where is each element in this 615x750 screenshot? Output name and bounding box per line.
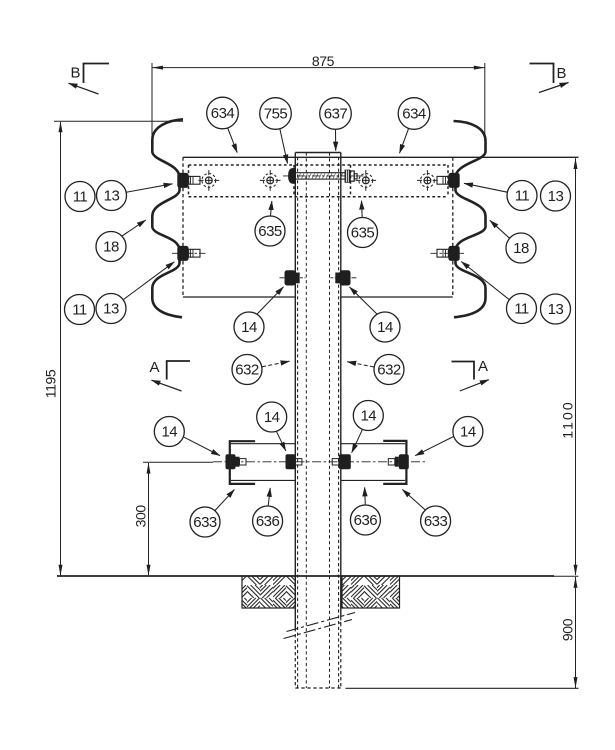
bolt hole target right-center bbox=[356, 170, 377, 191]
balloon 14 above flange bolt right bbox=[350, 287, 401, 342]
balloon 632 left (dashed leader) bbox=[232, 355, 290, 385]
lower bracket 633 left (channel) bbox=[230, 441, 295, 484]
bracket bolt 14 outer right bbox=[388, 454, 409, 469]
balloon 13 lower-right bbox=[541, 294, 571, 324]
svg-text:636: 636 bbox=[256, 513, 280, 530]
svg-text:633: 633 bbox=[424, 513, 448, 530]
balloon 633 right bbox=[402, 489, 450, 536]
dimension 1195 left bbox=[43, 121, 184, 575]
svg-text:11: 11 bbox=[514, 301, 529, 318]
svg-text:900: 900 bbox=[560, 618, 576, 641]
rail bolt 11/13 lower left bbox=[172, 246, 206, 261]
svg-text:18: 18 bbox=[103, 239, 119, 256]
balloon 634 top-right bbox=[398, 98, 430, 154]
balloon 14 above flange bolt left bbox=[234, 287, 284, 342]
post flange bolt 14 left (at plate bottom) bbox=[280, 270, 306, 285]
post 632 right wall bbox=[340, 153, 342, 618]
section marker B right bbox=[530, 64, 569, 93]
svg-text:13: 13 bbox=[103, 301, 119, 318]
balloon 13 lower-left bbox=[96, 262, 174, 324]
svg-text:B: B bbox=[71, 65, 81, 82]
svg-text:11: 11 bbox=[72, 302, 87, 319]
rail bolt 11/13 upper left (head + shank) bbox=[177, 173, 200, 188]
bolt hole target at plate right bbox=[417, 170, 438, 191]
balloon 14 bracket outer-left bbox=[154, 417, 220, 456]
svg-text:300: 300 bbox=[132, 505, 148, 528]
post 632 hidden lip lines (dashed, near walls) bbox=[297, 157, 299, 688]
dimension 1100 right bbox=[560, 158, 578, 576]
svg-text:18: 18 bbox=[513, 240, 529, 257]
svg-text:1100: 1100 bbox=[560, 400, 576, 439]
balloon 635 left bbox=[255, 201, 285, 246]
svg-text:14: 14 bbox=[264, 409, 280, 426]
dimension 900 right bbox=[552, 576, 579, 688]
bracket bolt 14 inner left bbox=[286, 454, 302, 469]
post 632 hidden outer walls underground (dashed) bbox=[294, 628, 296, 688]
balloon 637 bbox=[320, 98, 352, 151]
blockout plate 634 right edge (dashed) bbox=[452, 157, 454, 297]
balloon 11 lower-left bbox=[65, 295, 95, 325]
post flange bolt 14 right (at plate bottom) bbox=[330, 270, 356, 285]
blockout plate 634 top edge (extends as extension line to right dim) bbox=[183, 156, 579, 158]
rail bolt 11/13 upper right bbox=[437, 173, 460, 188]
bracket bolt 14 outer left bbox=[226, 454, 247, 469]
post break lines bbox=[287, 613, 356, 632]
svg-text:14: 14 bbox=[377, 319, 393, 336]
through bolt 755 nut and washer bbox=[345, 170, 358, 183]
svg-text:14: 14 bbox=[241, 319, 257, 336]
section marker A left bbox=[150, 359, 191, 391]
svg-text:14: 14 bbox=[161, 424, 177, 441]
svg-text:633: 633 bbox=[193, 514, 217, 531]
balloon 11 upper-right bbox=[464, 181, 537, 211]
lower bracket 633 right (channel) bbox=[341, 441, 407, 484]
balloon 14 bracket inner-right bbox=[352, 401, 384, 453]
balloon 755 bbox=[260, 98, 292, 164]
svg-text:A: A bbox=[478, 358, 488, 375]
balloon 13 upper-left bbox=[97, 181, 173, 211]
bracket bolt 14 inner right bbox=[332, 454, 351, 469]
balloon 18 right bbox=[490, 220, 536, 263]
balloon 632 right (dashed leader) bbox=[347, 355, 404, 385]
balloon 14 bracket outer-right bbox=[415, 417, 483, 456]
svg-text:634: 634 bbox=[402, 106, 426, 123]
svg-text:634: 634 bbox=[211, 105, 235, 122]
svg-text:635: 635 bbox=[351, 225, 375, 242]
W-beam guardrail profile right bbox=[454, 121, 486, 317]
balloon 636 left bbox=[253, 488, 283, 536]
balloon 18 left bbox=[96, 220, 146, 262]
bolt hole target at plate left bbox=[199, 170, 220, 191]
W-beam guardrail profile left bbox=[152, 119, 183, 317]
balloon 633 left bbox=[190, 490, 235, 538]
svg-text:13: 13 bbox=[548, 301, 564, 318]
svg-text:A: A bbox=[150, 359, 160, 376]
dimension 300 left bbox=[132, 462, 213, 575]
svg-text:14: 14 bbox=[460, 424, 476, 441]
post 632 hidden inner walls (dashed) bbox=[305, 153, 307, 689]
rail bolt 11/13 lower right bbox=[431, 246, 465, 261]
svg-text:875: 875 bbox=[312, 53, 335, 69]
post 632 top edge bbox=[295, 152, 341, 154]
svg-text:637: 637 bbox=[324, 106, 348, 123]
foundation block left (hatched) bbox=[242, 576, 295, 608]
blockout plate 634 left edge (dashed) bbox=[182, 157, 184, 297]
bolt hole target left-center bbox=[260, 170, 281, 191]
bottom reference line at post base bbox=[346, 687, 579, 689]
svg-text:1195: 1195 bbox=[43, 369, 59, 398]
bracket bolts centerline bbox=[213, 461, 427, 463]
svg-text:632: 632 bbox=[235, 362, 259, 379]
svg-text:755: 755 bbox=[264, 106, 288, 123]
foundation block right (hatched) bbox=[342, 576, 400, 608]
svg-text:13: 13 bbox=[548, 188, 564, 205]
post 632 bottom edge (hidden) bbox=[295, 687, 341, 689]
through bolt 755 dome head bbox=[288, 168, 296, 184]
through bolt 755 rod with thread bbox=[283, 173, 367, 179]
svg-text:632: 632 bbox=[377, 362, 401, 379]
ground line bbox=[57, 575, 554, 577]
svg-text:635: 635 bbox=[258, 223, 282, 240]
balloon 636 right bbox=[350, 487, 380, 535]
balloon 14 bracket inner-left bbox=[257, 402, 287, 451]
svg-text:14: 14 bbox=[360, 408, 376, 425]
svg-text:11: 11 bbox=[515, 188, 530, 205]
post 632 left wall bbox=[294, 153, 296, 629]
blockout plate 634 bottom edge bbox=[183, 296, 295, 298]
svg-text:11: 11 bbox=[73, 189, 88, 206]
balloon 11 upper-left bbox=[65, 182, 95, 212]
hidden rail bracket 635 outline (dashed rectangle band) bbox=[189, 165, 449, 197]
section marker A right bbox=[452, 358, 489, 391]
section marker B left bbox=[69, 64, 110, 95]
balloon 13 upper-right bbox=[541, 181, 571, 211]
balloon 11 lower-right bbox=[461, 262, 536, 324]
svg-text:13: 13 bbox=[104, 188, 120, 205]
balloon 634 top-left bbox=[207, 97, 239, 152]
dimension 875 top bbox=[152, 53, 485, 143]
svg-text:B: B bbox=[557, 65, 567, 82]
balloon 635 right bbox=[348, 201, 378, 248]
svg-text:636: 636 bbox=[354, 512, 378, 529]
